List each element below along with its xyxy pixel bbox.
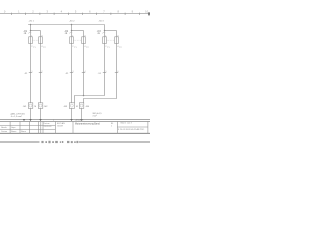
svg-text:2: 2 — [72, 46, 73, 48]
svg-text:GmbH: GmbH — [57, 125, 63, 127]
svg-text:T2: T2 — [43, 47, 45, 49]
node split -Q2 — [71, 30, 73, 32]
node split -Q1 — [30, 30, 32, 32]
wire end arrow M3 — [70, 119, 72, 121]
svg-text:3: 3 — [46, 10, 48, 14]
wire group2 left lower — [71, 108, 73, 119]
svg-text:0: 0 — [4, 10, 6, 14]
svg-text:-X0 1: -X0 1 — [29, 20, 35, 22]
title block outer bottom — [0, 132, 150, 134]
title block right mid line — [117, 126, 147, 128]
breaker -Q2 pole 2 — [82, 37, 86, 44]
title block row line 1 — [0, 125, 55, 127]
wire split -Q3 — [105, 30, 117, 32]
motor M3 — [69, 103, 74, 109]
column ruler ticks — [12, 12, 150, 15]
svg-text:M: M — [76, 106, 78, 108]
breaker -Q1 linkage — [33, 39, 39, 41]
svg-text:-X0 3: -X0 3 — [98, 20, 104, 22]
svg-text:4: 4 — [41, 46, 42, 48]
wire group1 left mid — [30, 44, 32, 103]
svg-text:2: 2 — [32, 10, 34, 14]
svg-text:-X0 2: -X0 2 — [69, 20, 75, 22]
svg-text:4: 4 — [61, 10, 63, 14]
svg-text:-M3: -M3 — [63, 106, 67, 108]
svg-text:+ANLAGE: +ANLAGE — [75, 119, 85, 122]
svg-text:Bearb.: Bearb. — [1, 127, 7, 129]
wire group2 right mid — [83, 44, 85, 96]
svg-text:-M2: -M2 — [44, 106, 48, 108]
svg-text:-M1: -M1 — [23, 106, 27, 108]
wire split -Q1 — [31, 30, 41, 32]
node split -Q3 — [104, 30, 106, 32]
column ruler numbers — [4, 10, 149, 14]
wire group1 right lower — [40, 108, 42, 119]
svg-text:7: 7 — [103, 10, 105, 14]
motor M2 — [38, 103, 43, 109]
wire group1 left upper — [30, 25, 32, 45]
title block column dividers — [10, 122, 148, 134]
svg-text:F. 24.05.2005 HS-PLAN.PRO: F. 24.05.2005 HS-PLAN.PRO — [118, 128, 145, 131]
wire group2 left upper — [71, 25, 73, 45]
svg-text:-X1: -X1 — [65, 73, 69, 75]
terminal X1:5 — [103, 72, 106, 74]
status bar rule right — [79, 141, 150, 143]
breaker -Q2 actuator arc — [69, 32, 72, 33]
status bar rule left — [0, 141, 40, 143]
svg-text:4 x 1,5 mm²: 4 x 1,5 mm² — [11, 115, 22, 118]
motor M1 — [28, 103, 33, 109]
wire L1 bus — [28, 24, 105, 26]
svg-text:5: 5 — [106, 71, 107, 73]
svg-text:2: 2 — [31, 46, 32, 48]
svg-text:1: 1 — [32, 71, 33, 73]
motor M4 — [79, 103, 84, 109]
wire group2 right lower — [81, 108, 83, 119]
node tap -Q1 — [30, 24, 32, 26]
svg-text:8: 8 — [117, 10, 119, 14]
svg-text:ELPLAN: ELPLAN — [57, 122, 65, 125]
svg-text:2: 2 — [105, 46, 106, 48]
drawing frame top border line — [0, 13, 150, 15]
svg-text:T1: T1 — [107, 47, 109, 49]
svg-text:M: M — [34, 106, 36, 108]
wire group1 right mid — [40, 44, 42, 103]
status bar page navigation icons — [41, 141, 63, 143]
svg-text:T1: T1 — [74, 47, 76, 49]
svg-text:-X1: -X1 — [24, 73, 28, 75]
terminal X1:6 — [115, 72, 118, 74]
svg-text:T2: T2 — [86, 47, 88, 49]
svg-text:1: 1 — [72, 35, 73, 37]
svg-text:9: 9 — [132, 10, 134, 14]
svg-text:Norm: Norm — [21, 131, 26, 133]
svg-text:6: 6 — [89, 10, 91, 14]
svg-text:-X1: -X1 — [98, 73, 102, 75]
wire group1 right upper — [40, 31, 42, 45]
svg-text:3: 3 — [84, 35, 85, 37]
svg-text:T1: T1 — [33, 47, 35, 49]
breaker -Q1 pole 1 — [29, 37, 33, 44]
wire group2 left mid — [71, 44, 73, 103]
svg-text:Gepr.: Gepr. — [11, 127, 16, 129]
wire group3 left upper — [104, 25, 106, 45]
svg-text:Blatt 1 von 3: Blatt 1 von 3 — [121, 122, 133, 125]
wire PE line A — [75, 44, 105, 103]
svg-text:1: 1 — [31, 35, 32, 37]
svg-text:24.05.05: 24.05.05 — [44, 126, 53, 128]
svg-text:10: 10 — [145, 10, 148, 14]
wire group3 right upper — [116, 31, 118, 45]
breaker -Q1 pole 2 — [39, 37, 43, 44]
terminal X1:2 — [39, 72, 42, 74]
title block outer top — [0, 121, 150, 123]
drawing frame bottom border line — [0, 118, 150, 120]
svg-text:3: 3 — [117, 35, 118, 37]
terminal X1:4 — [82, 72, 85, 74]
wire group2 right upper — [83, 31, 85, 45]
svg-text:-M4: -M4 — [85, 106, 89, 108]
svg-text:2: 2 — [42, 71, 43, 73]
title block row line 2 — [0, 129, 55, 131]
status bar zoom control icons — [67, 141, 78, 143]
svg-text:1: 1 — [18, 10, 20, 14]
wire end arrow M1 — [29, 119, 31, 121]
wire PE line B — [84, 44, 117, 103]
breaker -Q1 actuator arc — [28, 32, 31, 33]
breaker -Q2 linkage — [74, 39, 82, 41]
svg-text:Motoransteuerung Band: Motoransteuerung Band — [75, 122, 100, 125]
svg-text:4: 4 — [85, 71, 86, 73]
node PE junction — [83, 95, 85, 97]
wire group1 left lower — [30, 108, 32, 119]
svg-text:mm²: mm² — [93, 115, 97, 118]
svg-text:Name: Name — [11, 131, 17, 133]
wire split -Q2 — [72, 30, 84, 32]
svg-text:4: 4 — [84, 46, 85, 48]
svg-text:1: 1 — [111, 125, 113, 127]
title block texts — [1, 122, 144, 133]
svg-text:3: 3 — [73, 71, 74, 73]
svg-text:Datum: Datum — [44, 122, 50, 125]
svg-text:Datum: Datum — [1, 130, 7, 133]
breaker -Q3 linkage — [107, 39, 115, 41]
wire end arrow M2 — [39, 119, 41, 121]
wire end arrow PE — [23, 119, 25, 121]
breaker -Q3 pole 1 — [103, 37, 107, 44]
svg-text:1: 1 — [105, 35, 106, 37]
breaker -Q3 pole 2 — [115, 37, 119, 44]
svg-text:4: 4 — [117, 46, 118, 48]
svg-text:3: 3 — [41, 35, 42, 37]
wire end arrow M4 — [80, 119, 82, 121]
terminal X1:1 — [29, 72, 32, 74]
svg-text:5: 5 — [75, 10, 77, 14]
svg-text:6: 6 — [118, 71, 119, 73]
terminal X1:3 — [70, 72, 73, 74]
svg-text:T2: T2 — [119, 47, 121, 49]
node tap -Q2 — [71, 24, 73, 26]
breaker -Q3 actuator arc — [102, 32, 105, 33]
breaker -Q2 pole 1 — [70, 37, 74, 44]
